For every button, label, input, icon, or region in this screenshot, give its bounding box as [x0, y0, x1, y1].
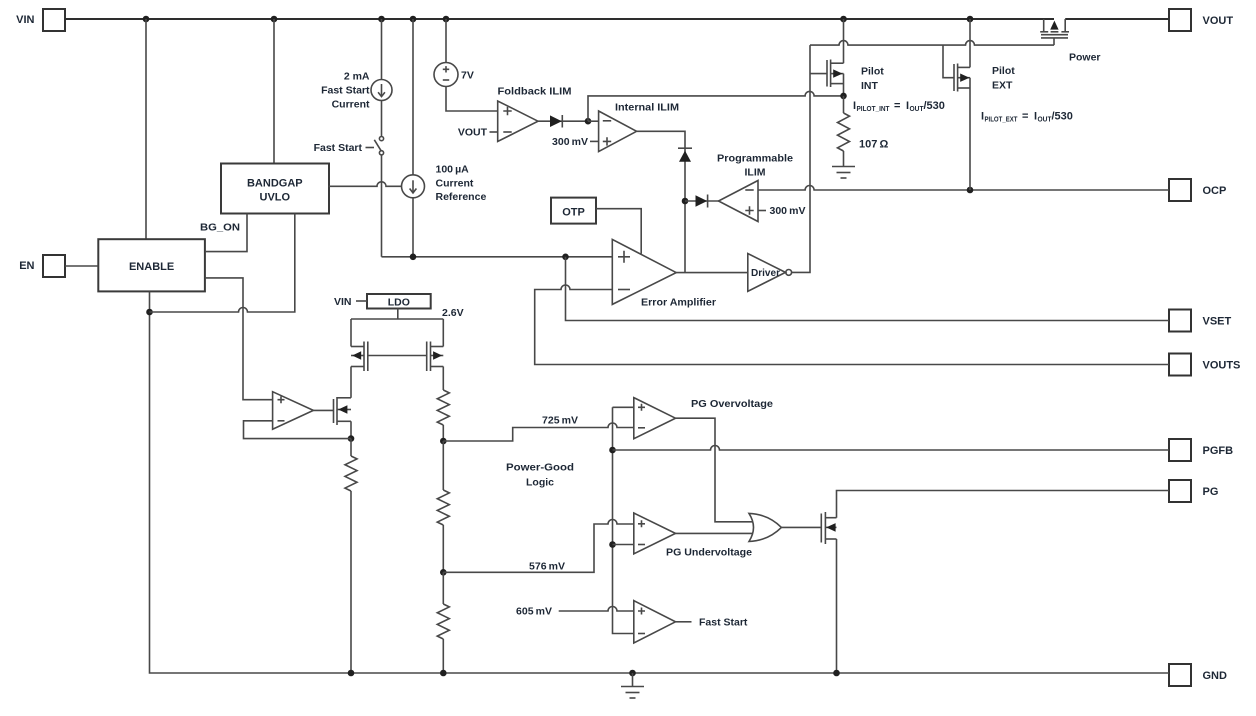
svg-text:VIN: VIN [16, 14, 34, 26]
svg-text:/530: /530 [924, 100, 945, 112]
svg-text:PG Overvoltage: PG Overvoltage [691, 398, 773, 410]
svg-text:OUT: OUT [910, 106, 925, 113]
svg-text:107 Ω: 107 Ω [859, 139, 889, 151]
svg-text:EXT: EXT [992, 80, 1013, 92]
svg-text:Programmable: Programmable [717, 153, 793, 165]
svg-text:PILOT_INT: PILOT_INT [857, 106, 891, 113]
svg-text:Pilot: Pilot [861, 66, 884, 78]
svg-text:EN: EN [19, 260, 34, 272]
svg-text:VOUT: VOUT [458, 127, 488, 139]
svg-text:Power-Good: Power-Good [506, 462, 574, 474]
svg-text:BG_ON: BG_ON [200, 222, 240, 234]
svg-text:VOUT: VOUT [1203, 15, 1234, 27]
svg-text:Fast Start: Fast Start [321, 85, 370, 97]
svg-text:OUT: OUT [1038, 117, 1053, 124]
svg-text:7V: 7V [461, 70, 474, 82]
svg-text:PG Undervoltage: PG Undervoltage [666, 547, 752, 559]
svg-text:=: = [1022, 111, 1028, 123]
svg-text:OTP: OTP [562, 207, 585, 219]
svg-text:VSET: VSET [1203, 316, 1232, 328]
svg-text:Reference: Reference [436, 191, 487, 203]
svg-text:PILOT_EXT: PILOT_EXT [985, 117, 1019, 124]
svg-text:605 mV: 605 mV [516, 606, 552, 618]
svg-text:BANDGAP: BANDGAP [247, 178, 303, 190]
svg-text:UVLO: UVLO [260, 192, 291, 204]
svg-text:2 mA: 2 mA [344, 71, 370, 83]
svg-text:Fast Start: Fast Start [314, 142, 363, 154]
svg-text:300 mV: 300 mV [770, 205, 806, 217]
svg-text:Driver: Driver [751, 267, 780, 279]
svg-text:Logic: Logic [526, 477, 554, 489]
svg-text:725 mV: 725 mV [542, 415, 578, 427]
svg-text:Foldback ILIM: Foldback ILIM [498, 86, 572, 98]
svg-text:ILIM: ILIM [745, 167, 766, 179]
svg-text:/530: /530 [1052, 111, 1073, 123]
svg-text:Pilot: Pilot [992, 65, 1015, 77]
svg-text:Current: Current [436, 177, 474, 189]
svg-text:2.6V: 2.6V [442, 307, 464, 319]
svg-text:Current: Current [332, 99, 370, 111]
svg-text:Internal ILIM: Internal ILIM [615, 102, 679, 114]
svg-text:VOUTS: VOUTS [1203, 360, 1241, 372]
svg-text:INT: INT [861, 80, 879, 92]
svg-text:GND: GND [1203, 670, 1228, 682]
svg-text:Fast Start: Fast Start [699, 617, 748, 629]
svg-text:300 mV: 300 mV [552, 136, 588, 148]
svg-text:PGFB: PGFB [1203, 445, 1234, 457]
svg-text:LDO: LDO [388, 297, 410, 309]
svg-text:=: = [894, 100, 900, 112]
svg-text:VIN: VIN [334, 296, 352, 308]
svg-text:PG: PG [1203, 486, 1219, 498]
svg-text:ENABLE: ENABLE [129, 261, 174, 273]
svg-text:100 µA: 100 µA [436, 164, 470, 176]
svg-text:OCP: OCP [1203, 185, 1227, 197]
svg-text:Error Amplifier: Error Amplifier [641, 297, 716, 309]
svg-text:Power: Power [1069, 52, 1101, 64]
svg-text:576 mV: 576 mV [529, 561, 565, 573]
